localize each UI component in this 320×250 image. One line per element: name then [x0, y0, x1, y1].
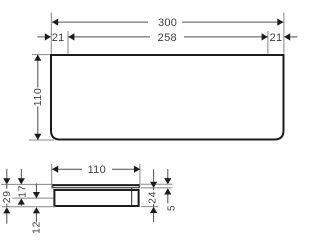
dimension 17 top tail [20, 169, 22, 179]
extension line mid left horizontal [13, 197, 54, 199]
dimension 17 arrow up [18, 198, 25, 204]
dimension 12 bottom tail [35, 213, 37, 222]
dimension 110 (side view) line right segment [112, 168, 140, 170]
extension line right vertical (110 side) [139, 164, 141, 187]
dimension 29 arrow down [3, 178, 10, 184]
dimension 24 line lower segment [153, 204, 155, 207]
svg-text:21: 21 [270, 32, 283, 44]
extension line left vertical (110 side) [51, 164, 53, 189]
arrow left of 110 side [52, 166, 58, 173]
dimension 29 line lower segment [6, 204, 8, 208]
plate bottom line [52, 187, 139, 189]
extension line bottom-left horizontal for 110 [29, 139, 54, 141]
svg-text:300: 300 [158, 17, 177, 29]
plate right edge [138, 184, 140, 188]
arrow left of 300 [52, 19, 58, 26]
extension tick x=68 [67, 31, 69, 54]
dimension 21 right tail [290, 36, 297, 38]
dimension 29 bottom tail [6, 213, 8, 223]
svg-text:29: 29 [2, 190, 13, 203]
dimension 24 arrow down [150, 182, 157, 188]
dimension 5 arrow up [164, 188, 171, 194]
dimension 17 bottom tail [20, 205, 22, 206]
dimension 24 bottom tail [153, 213, 155, 222]
extension line plate-bottom right horizontal [141, 187, 173, 189]
dimension 24 arrow up [150, 207, 157, 213]
dimension 5 top tail [167, 169, 169, 178]
dimension 12 arrow up [33, 207, 40, 213]
plate (shelf panel edge-on): thick top line [52, 184, 139, 186]
dimension 12 arrow down [33, 192, 40, 198]
extension line bottom left horizontal [2, 206, 56, 208]
extension line bottom right horizontal [141, 206, 158, 208]
inner line of front apron [131, 188, 133, 206]
svg-text:110: 110 [88, 164, 106, 176]
dimension 110 (side view) line left segment [52, 168, 82, 170]
extension line right (x=283.9) [283, 13, 285, 54]
arrow up of 110 [34, 55, 41, 61]
dimension 300 line right segment [182, 21, 284, 23]
shelf outline (plan view, rounded front corners) [51, 55, 284, 140]
svg-text:17: 17 [18, 185, 29, 198]
dimension 29 line upper segment [6, 184, 8, 188]
dimension 24 top tail [153, 169, 155, 182]
svg-text:5: 5 [167, 205, 178, 212]
dimension 258 line right segment [184, 36, 268, 38]
svg-text:258: 258 [158, 32, 177, 44]
arrow left of 258 [68, 33, 74, 40]
svg-text:110: 110 [33, 87, 44, 106]
dimension 5 arrow down [164, 178, 171, 184]
dimension 12 top tail [35, 184, 37, 193]
dimension 29 top tail [6, 169, 8, 179]
dimension 5 bottom tail [167, 195, 169, 204]
dimension 21 right outside arrow [284, 33, 290, 40]
extension line top-left horizontal for 110 [32, 54, 50, 56]
dimension 29 arrow up [3, 207, 10, 213]
extension tick x=267.9 [267, 31, 269, 54]
dimension 24 line upper segment [153, 188, 155, 190]
dimension 258 line left segment [68, 36, 150, 38]
plate left edge [52, 184, 54, 188]
dimension 110 (top view) line upper segment [37, 55, 39, 87]
extension line plate-top left horizontal [1, 183, 52, 185]
svg-text:24: 24 [148, 191, 159, 204]
arrow down of 110 [34, 134, 41, 140]
svg-text:21: 21 [52, 32, 65, 44]
body (holder frame) [54, 190, 138, 206]
dimension 21 left tail [38, 36, 47, 38]
extension line left (x=51.3) [50, 13, 52, 54]
svg-text:12: 12 [31, 221, 42, 234]
extension line plate-top right horizontal [141, 183, 172, 185]
arrow right of 110 side [134, 166, 140, 173]
dimension 300 line left segment [52, 21, 148, 23]
arrow right of 258 [262, 33, 268, 40]
dimension 21 left outside arrow [45, 33, 51, 40]
dimension 17 arrow down [18, 178, 25, 184]
dimension 110 (top view) line lower segment [37, 107, 39, 140]
arrow right of 300 [277, 19, 283, 26]
